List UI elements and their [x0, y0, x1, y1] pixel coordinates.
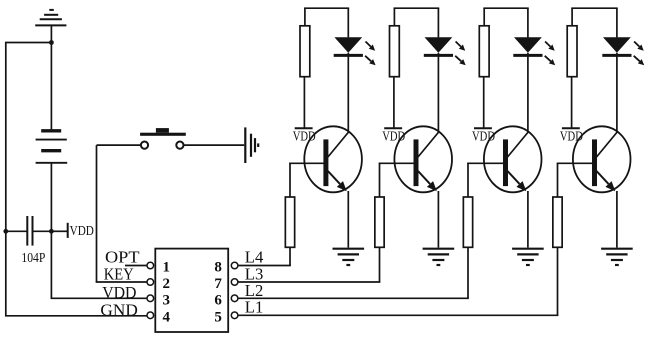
svg-text:4: 4	[163, 310, 171, 326]
wire: base resistor top lead (stage 2)	[379, 163, 381, 197]
LED light arrows (stage 3)	[545, 42, 556, 66]
wire: LED cathode to collector (stage 2)	[437, 53, 439, 132]
wire: LED cathode to collector (stage 4)	[616, 53, 618, 132]
svg-text:VDD: VDD	[102, 283, 136, 302]
wire: load resistor top lead (stage 4)	[571, 8, 573, 26]
svg-text:7: 7	[214, 276, 222, 292]
wire: button right lead	[184, 144, 245, 146]
wire: top rail (stage 3)	[483, 7, 528, 9]
LED D2	[424, 37, 453, 55]
IC U1 body	[155, 249, 228, 332]
wire: base resistor down to L row (stage 3)	[467, 247, 469, 298]
wire: top rail (stage 1)	[304, 7, 349, 9]
load resistor (stage 4)	[567, 26, 577, 77]
wire: emitter to ground (stage 2)	[437, 191, 439, 248]
wire: left GND rail vertical	[5, 43, 7, 316]
wire: base resistor top lead (stage 3)	[467, 163, 469, 197]
wire: load resistor top lead (stage 1)	[304, 8, 306, 26]
wire: L3 row from IC pin 7 (stage 2)	[238, 281, 380, 283]
wire: base lead (stage 3)	[467, 162, 504, 164]
svg-text:KEY: KEY	[104, 265, 134, 284]
wire: VDD node down to VDD pin row	[50, 231, 52, 298]
wire: base lead (stage 1)	[289, 162, 324, 164]
VDD power flag (stage 3)	[474, 127, 492, 129]
svg-text:OPT: OPT	[105, 247, 140, 266]
wire: base resistor down to L row (stage 2)	[379, 247, 381, 282]
load resistor (stage 3)	[479, 26, 489, 77]
pin 3 bubble	[147, 295, 154, 302]
pin 2 bubble	[147, 279, 154, 286]
wire: LED anode lead (stage 2)	[437, 8, 439, 37]
wire: KEY vertical (button to pin 2)	[96, 145, 98, 282]
svg-text:5: 5	[214, 310, 222, 326]
wire: VDD node to net tick	[51, 230, 67, 232]
LED light arrows (stage 2)	[455, 42, 466, 66]
svg-text:2: 2	[163, 276, 171, 292]
transistor Q2	[394, 126, 452, 192]
LED D1	[334, 37, 363, 55]
LED light arrows (stage 1)	[365, 42, 376, 66]
transistor Q1	[304, 126, 362, 192]
wire: L4 row from IC pin 8 (stage 1)	[238, 265, 291, 267]
wire: top rail (stage 2)	[394, 7, 440, 9]
junction: VDD node	[49, 229, 54, 234]
VDD power flag (stage 2)	[384, 127, 402, 129]
wire: load resistor to VDD flag (stage 2)	[393, 77, 395, 129]
LED D3	[513, 37, 542, 55]
wire: base resistor top lead (stage 4)	[557, 163, 559, 197]
wire: junction to left rail	[5, 42, 51, 44]
pin 7 bubble	[231, 279, 238, 286]
ground (stage 3)	[512, 249, 544, 265]
pin 6 bubble	[231, 295, 238, 302]
ground (stage 1)	[333, 249, 365, 265]
junction: capacitor on GND rail	[3, 229, 8, 234]
svg-text:8: 8	[214, 260, 222, 276]
transistor Q3	[484, 126, 542, 192]
base resistor (stage 4)	[553, 197, 562, 247]
wire: base lead (stage 2)	[379, 162, 415, 164]
pin 8 bubble	[231, 262, 238, 269]
wire: L2 row from IC pin 6 (stage 3)	[238, 297, 469, 299]
wire: capacitor to VDD node	[33, 230, 52, 232]
VDD power flag (stage 4)	[562, 127, 580, 129]
wire: emitter to ground (stage 4)	[616, 191, 618, 248]
LED D4	[602, 37, 631, 55]
wire: KEY row into IC pin 2	[96, 281, 147, 283]
wire: base lead (stage 4)	[557, 162, 593, 164]
pin 4 bubble	[147, 312, 154, 319]
wire: base resistor down to L row (stage 1)	[289, 247, 291, 265]
junction node (earth / battery + / GND rail)	[49, 40, 54, 45]
pin 1 bubble	[147, 262, 154, 269]
wire: GND row into IC pin 4	[5, 315, 147, 317]
wire: load resistor to VDD flag (stage 1)	[303, 77, 305, 129]
load resistor (stage 1)	[300, 26, 310, 77]
wire: junction down to battery top	[50, 43, 52, 130]
svg-text:3: 3	[163, 293, 171, 309]
wire: load resistor to VDD flag (stage 4)	[571, 77, 573, 129]
VDD power flag (stage 1)	[295, 127, 313, 129]
battery B1	[36, 131, 68, 163]
svg-text:VDD: VDD	[70, 224, 94, 239]
wire: LED anode lead (stage 4)	[616, 8, 618, 37]
pin 5 bubble	[231, 312, 238, 319]
base resistor (stage 1)	[285, 197, 294, 247]
push button S1	[140, 128, 186, 149]
wire: emitter to ground (stage 3)	[527, 191, 529, 248]
VDD net tick	[67, 223, 69, 238]
wire: load resistor top lead (stage 2)	[393, 8, 395, 26]
ground (stage 4)	[601, 249, 633, 265]
wire: LED anode lead (stage 3)	[527, 8, 529, 37]
svg-text:GND: GND	[100, 300, 137, 319]
wire: load resistor to VDD flag (stage 3)	[483, 77, 485, 129]
load resistor (stage 2)	[390, 26, 400, 77]
base resistor (stage 2)	[375, 197, 384, 247]
transistor Q4	[573, 126, 631, 192]
base resistor (stage 3)	[463, 197, 472, 247]
wire: LED cathode to collector (stage 1)	[347, 53, 349, 132]
svg-text:1: 1	[163, 260, 171, 276]
wire: base resistor down to L row (stage 4)	[557, 247, 559, 315]
wire: base resistor top lead (stage 1)	[289, 163, 291, 197]
wire: LED cathode to collector (stage 3)	[527, 53, 529, 132]
wire: button left lead	[97, 144, 141, 146]
wire: OPT stub into IC pin 1	[125, 265, 147, 267]
svg-text:6: 6	[214, 293, 222, 309]
wire: battery bottom to VDD node	[50, 163, 52, 232]
wire: emitter to ground (stage 1)	[347, 191, 349, 248]
capacitor C1 (104P)	[27, 216, 32, 246]
svg-text:104P: 104P	[21, 251, 45, 266]
LED light arrows (stage 4)	[634, 42, 645, 66]
wire: GND rail to capacitor	[6, 230, 27, 232]
svg-text:L1: L1	[245, 298, 263, 317]
wire: top rail (stage 4)	[571, 7, 618, 9]
wire: load resistor top lead (stage 3)	[483, 8, 485, 26]
ground (button, right-facing earth)	[245, 127, 258, 163]
ground (stage 2)	[423, 249, 455, 265]
wire: L1 row from IC pin 5 (stage 4)	[238, 314, 558, 316]
wire: LED anode lead (stage 1)	[347, 8, 349, 37]
wire: VDD row into IC pin 3	[51, 297, 147, 299]
earth symbol (battery top)	[35, 10, 66, 43]
